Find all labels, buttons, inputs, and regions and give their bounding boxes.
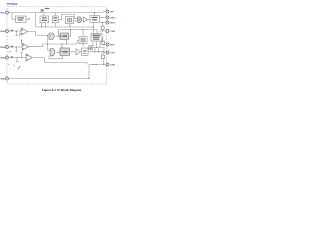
wire divider out <box>74 20 79 22</box>
rail label <box>45 8 50 9</box>
pin CTR <box>106 51 115 54</box>
wire filter output <box>26 18 30 20</box>
wire net47 <box>93 48 104 52</box>
current sink I1 <box>16 31 18 35</box>
svg-text:GND: GND <box>0 79 5 81</box>
wire wd right <box>101 38 104 45</box>
wire out chain <box>88 51 106 54</box>
buffer box small <box>89 46 93 50</box>
wire osc out <box>58 15 78 20</box>
svg-text:TPS3860: TPS3860 <box>7 3 18 6</box>
counter box <box>60 33 69 40</box>
divider box <box>66 17 74 24</box>
glitch filter box <box>16 16 27 22</box>
current sink I2 <box>16 47 18 51</box>
output fet Q2 <box>103 51 104 52</box>
pin SEN1 <box>0 29 8 33</box>
wire logic bottom <box>93 22 95 27</box>
inverter U2 <box>83 17 87 22</box>
wire osc top <box>54 13 56 17</box>
wire comp C out <box>32 58 87 65</box>
oscillator box <box>52 16 58 23</box>
wire comp B out <box>29 44 43 47</box>
pin CWD <box>100 29 116 32</box>
feedback wire <box>49 56 63 59</box>
buffer U3 <box>76 49 81 55</box>
watchdog box <box>91 34 102 42</box>
svg-text:GND: GND <box>110 64 115 66</box>
pin GND right <box>89 63 115 66</box>
pin WDO <box>100 21 116 24</box>
clamp diode D3 <box>11 56 13 58</box>
wire n5 up <box>21 52 23 57</box>
wire gnd <box>9 65 89 79</box>
wire to logic box <box>88 19 90 21</box>
wire counter bottom <box>66 40 68 45</box>
node n1 <box>16 31 17 32</box>
wire ref out a <box>41 23 43 26</box>
svg-text:CTR: CTR <box>110 52 115 54</box>
wire sense3 <box>9 57 26 59</box>
wire G2 out <box>57 51 61 53</box>
wire divider bottom <box>69 24 71 26</box>
pin WDI <box>103 43 115 46</box>
node n4 <box>16 47 17 48</box>
clamp diode D2 <box>11 46 13 48</box>
delay box <box>82 48 89 55</box>
wire v95 <box>94 48 96 52</box>
wire vdd drop <box>35 13 37 28</box>
resistor symbol on rail <box>41 12 43 13</box>
wire ref out b <box>45 23 47 26</box>
svg-text:RSTn: RSTn <box>110 17 116 19</box>
comparator B <box>22 43 29 50</box>
current sink I3 <box>17 57 18 58</box>
pin VDD1 (right) <box>106 10 114 13</box>
comparator C <box>26 54 32 61</box>
svg-text:VDD: VDD <box>0 13 5 15</box>
gate G1 <box>49 33 54 40</box>
pin SEN3 <box>0 56 8 60</box>
wire mux bottom <box>82 44 84 46</box>
output fet Q1 <box>102 22 103 23</box>
comparator A minus stub <box>20 34 22 37</box>
wire wd bottom c <box>99 41 101 48</box>
wire n3 to G2 <box>48 50 51 52</box>
wire comp B top feed <box>21 39 23 44</box>
svg-text:WDO: WDO <box>110 22 115 24</box>
gate G2 <box>50 49 55 56</box>
wire G1 out <box>56 35 61 37</box>
pin RESET <box>100 16 117 19</box>
node n5 <box>21 57 22 58</box>
wire net44 <box>43 41 80 44</box>
logic box <box>90 16 100 23</box>
comparator A <box>21 28 28 35</box>
wire mux top <box>82 30 84 37</box>
pin GND left <box>0 77 8 81</box>
wire n2 down <box>47 36 49 51</box>
wire ref top <box>43 13 45 17</box>
pin SEN2 <box>0 45 8 49</box>
svg-text:WDI: WDI <box>110 44 114 46</box>
wire comp A out <box>28 32 50 36</box>
timer box <box>60 48 70 56</box>
current source marks <box>8 64 14 66</box>
wire wd bottom b <box>96 41 98 48</box>
wire osc bottom <box>54 23 56 27</box>
pin VDD (left) <box>0 11 8 15</box>
reference box <box>40 16 49 23</box>
svg-text:CWD: CWD <box>110 31 115 33</box>
chip boundary dashed box <box>7 7 107 85</box>
bus1 wire <box>36 26 94 28</box>
node n3 <box>47 43 48 44</box>
hys marks <box>8 51 11 52</box>
wire VDD rail <box>9 11 106 14</box>
wire v98 <box>98 48 100 52</box>
wire to filter box <box>12 13 16 20</box>
wire counter out <box>69 30 71 37</box>
output fet Q3 <box>102 41 105 44</box>
wire wd bottom a <box>92 41 94 48</box>
wire timer out <box>70 51 77 53</box>
mux box <box>79 37 87 44</box>
gate U1 <box>78 17 82 22</box>
clamp diode D1 <box>11 30 13 32</box>
wire G1 out to bus2 <box>58 30 97 37</box>
wire sense1 <box>9 30 21 32</box>
node n2 <box>47 35 48 36</box>
wire sense2 <box>9 46 22 48</box>
svg-text:Figure 8-1. IC Block Diagram: Figure 8-1. IC Block Diagram <box>42 88 82 92</box>
wire logic top <box>94 13 96 16</box>
